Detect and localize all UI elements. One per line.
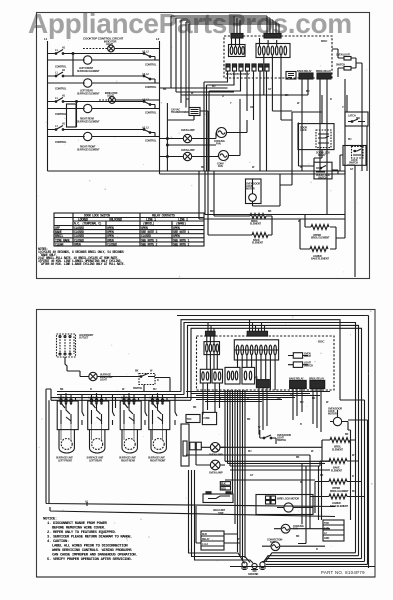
- svg-text:FAN: FAN: [218, 165, 223, 168]
- svg-text:BROIL RELAY: BROIL RELAY: [316, 70, 332, 73]
- node L1 (left bus): [44, 37, 48, 171]
- wire stub U2-U3: [113, 395, 116, 426]
- oven light switch SW-OL: [336, 54, 356, 61]
- wire bus y214: [205, 171, 345, 215]
- svg-text:TCO: TCO: [187, 418, 192, 421]
- control switch S4: [48, 123, 78, 145]
- wire top loop B: [184, 323, 356, 406]
- svg-text:BK: BK: [296, 456, 300, 459]
- door lock motor M3: [246, 174, 281, 206]
- svg-text:LIGHT: LIGHT: [304, 355, 311, 358]
- svg-text:RELAY: RELAY: [202, 538, 210, 541]
- svg-text:CONTROL: CONTROL: [55, 88, 67, 91]
- svg-text:1. DISCONNECT RANGE FROM POWER: 1. DISCONNECT RANGE FROM POWER: [47, 522, 108, 526]
- svg-text:ELEMENT: ELEMENT: [252, 242, 264, 245]
- svg-text:LABEL ALL WIRES PRIOR TO DISCO: LABEL ALL WIRES PRIOR TO DISCONNECTION: [52, 545, 128, 549]
- svg-text:DOOR LOCK SWITCH: DOOR LOCK SWITCH: [84, 214, 110, 218]
- wire bundle bends right: [225, 461, 330, 466]
- thermal fuse F1: [186, 415, 200, 423]
- upper broil element R3: [305, 215, 336, 240]
- wire row3: [48, 101, 160, 127]
- svg-text:LIGHT: LIGHT: [107, 95, 114, 98]
- cooling fan M5: [274, 524, 330, 533]
- wire surface bus y391: [57, 391, 181, 393]
- svg-text:H1 L2: H1 L2: [143, 99, 150, 102]
- wire ground links: [189, 470, 254, 563]
- wire fan y395: [196, 395, 320, 397]
- wire relay outputs down: [302, 79, 345, 219]
- svg-text:CONTROL: CONTROL: [145, 86, 157, 89]
- broil element R1: [214, 171, 272, 228]
- svg-text:OVEN LAMP: OVEN LAMP: [209, 471, 223, 474]
- svg-text:BAKE ELEMENT: BAKE ELEMENT: [330, 505, 349, 508]
- wire tags bottom diagram: [60, 388, 356, 551]
- svg-text:GY: GY: [350, 168, 354, 171]
- DOC dashed box (top): [224, 36, 332, 78]
- wire bundle down left of DOC: [171, 16, 189, 103]
- svg-text:BK: BK: [345, 433, 349, 436]
- svg-text:DLB: DLB: [202, 533, 207, 536]
- svg-text:CONTROL: CONTROL: [55, 66, 67, 69]
- latch switch SW-L: [345, 95, 368, 171]
- svg-text:CONTROL: CONTROL: [55, 141, 67, 144]
- part number strip: [37, 567, 376, 578]
- control switch S4b: [143, 127, 157, 143]
- wire bus y219: [199, 171, 345, 219]
- wire stub right of U4: [175, 395, 177, 426]
- wire oven light feeds: [332, 49, 362, 171]
- svg-text:UNLOCKED: UNLOCKED: [109, 218, 122, 222]
- wire vert x292: [280, 112, 322, 185]
- wire top loop A: [181, 320, 365, 440]
- svg-text:BK: BK: [193, 406, 197, 409]
- svg-text:4. CAUTION:: 4. CAUTION:: [47, 540, 69, 544]
- inner chassis box: [46, 389, 335, 517]
- svg-text:MOTOR: MOTOR: [246, 188, 255, 191]
- svg-text:SWITCH: SWITCH: [133, 387, 142, 390]
- svg-text:BK: BK: [201, 166, 205, 169]
- svg-text:CAN CAUSE IMPROPER AND DANGERO: CAN CAUSE IMPROPER AND DANGEROUS OPERATI…: [52, 554, 137, 558]
- connector row J2: [212, 369, 223, 383]
- svg-text:DOC: DOC: [318, 340, 325, 344]
- svg-text:BROIL RELAY: BROIL RELAY: [309, 377, 325, 380]
- high limit thermostat HL: [203, 492, 233, 515]
- element RF tube: [148, 424, 166, 462]
- connector P5 pins: [234, 340, 278, 390]
- svg-text:CLEAN: CLEAN: [55, 242, 63, 246]
- svg-text:TOD: TOD: [324, 522, 329, 525]
- part number label: [321, 570, 365, 575]
- wire stub U3-U4: [145, 395, 147, 426]
- wire P1 feeds: [234, 16, 240, 34]
- relay K5: [309, 377, 325, 388]
- wire top feeds left: [171, 16, 279, 24]
- door lock motor M7 (right): [328, 408, 351, 521]
- wire P2 feeds: [267, 16, 279, 34]
- svg-text:BROIL ELEMENT: BROIL ELEMENT: [330, 490, 349, 493]
- svg-text:SWITCH: SWITCH: [277, 439, 286, 442]
- infinite switch SW1: [57, 393, 78, 430]
- svg-text:GY: GY: [290, 394, 294, 397]
- svg-text:BEFORE REMOVING WIRE COVER.: BEFORE REMOVING WIRE COVER.: [52, 527, 106, 531]
- svg-text:OUTLET: OUTLET: [79, 337, 89, 340]
- connector row J1: [200, 369, 210, 383]
- terminal block TOD: [323, 520, 344, 541]
- svg-text:SEE NOTE 2: SEE NOTE 2: [141, 242, 158, 246]
- lock switch SW-LK: [340, 146, 366, 172]
- wire top loop D: [191, 328, 362, 410]
- oven light switch SW-OL2: [336, 64, 356, 71]
- svg-text:L1 L2: L1 L2: [202, 543, 209, 546]
- svg-text:SWITCH: SWITCH: [318, 177, 327, 180]
- wire surface bus y397: [51, 397, 188, 399]
- connector P2 pins: [256, 38, 292, 120]
- svg-text:SURFACE ELEMENT: SURFACE ELEMENT: [77, 70, 100, 73]
- connector P1 plug cap: [231, 34, 243, 39]
- svg-text:LIGHT: LIGHT: [106, 43, 113, 46]
- svg-text:TRANSFORMER: TRANSFORMER: [171, 111, 189, 114]
- wire surface bus y394: [57, 394, 184, 396]
- terminal block TB2: [255, 377, 269, 388]
- svg-text:BK: BK: [163, 88, 167, 91]
- svg-text:FAN: FAN: [216, 143, 221, 146]
- svg-text:LIGHT: LIGHT: [100, 379, 107, 382]
- svg-text:LOCK: LOCK: [300, 129, 307, 132]
- svg-text:SURFACE ELEMENT: SURFACE ELEMENT: [77, 92, 100, 95]
- connector P2 plug cap: [264, 34, 281, 39]
- svg-text:SWITCH: SWITCH: [304, 364, 313, 367]
- svg-text:CONTROL: CONTROL: [145, 112, 157, 115]
- cooling fan M1: [214, 120, 247, 146]
- svg-text:BU: BU: [153, 388, 157, 391]
- svg-text:BU: BU: [352, 490, 356, 493]
- svg-text:BK: BK: [135, 370, 139, 373]
- connector P5 plug cap: [247, 331, 267, 336]
- wire bundle DOC outputs down: [204, 71, 267, 171]
- wire fan y401: [205, 401, 262, 403]
- svg-text:RIGHT REAR: RIGHT REAR: [121, 459, 135, 462]
- door lock relay K3: [298, 95, 334, 158]
- wire stub U1-U2: [82, 395, 84, 426]
- svg-text:H1 L2: H1 L2: [143, 51, 150, 54]
- wire main bundle: [225, 390, 245, 564]
- svg-text:L1: L1: [44, 37, 48, 41]
- svg-text:BU: BU: [248, 450, 252, 453]
- wire right column joins: [336, 165, 355, 277]
- control switch S1: [48, 47, 78, 69]
- svg-text:OVEN LAMP: OVEN LAMP: [181, 149, 195, 152]
- svg-text:BK: BK: [268, 210, 272, 213]
- control switch S1b: [143, 51, 157, 67]
- wire fan y391: [186, 391, 330, 393]
- upper broil element R7: [315, 479, 362, 513]
- wire P4 feeds: [208, 323, 214, 332]
- wire right bends to ground: [262, 553, 368, 565]
- element E2 left rear: [77, 79, 100, 96]
- wire transformer leads: [167, 99, 208, 171]
- svg-text:LATCH: LATCH: [348, 115, 356, 118]
- element LF tube: [56, 424, 74, 462]
- relay K4: [289, 377, 306, 388]
- svg-text:FAN: FAN: [270, 541, 275, 544]
- bottom diagram frame: [37, 310, 376, 578]
- svg-text:BU: BU: [306, 90, 310, 93]
- bake element R6: [320, 459, 359, 473]
- lamp holder LH: [190, 442, 202, 450]
- svg-text:SURFACE ELEMENT: SURFACE ELEMENT: [77, 120, 100, 123]
- svg-text:(BROIL): (BROIL): [143, 222, 155, 226]
- table door-lock/relay: [54, 213, 204, 246]
- svg-text:STAT: STAT: [218, 512, 224, 515]
- oven lamp LA3: [201, 443, 225, 457]
- DOC dashed box (bottom): [197, 336, 335, 390]
- control switch S3: [48, 95, 78, 117]
- wire top loop C: [188, 325, 359, 405]
- door light switch SW8: [260, 430, 291, 444]
- svg-text:2. REFER ONLY TO FEATURES EQUI: 2. REFER ONLY TO FEATURES EQUIPPED.: [47, 531, 116, 535]
- svg-text:RED: RED: [221, 487, 226, 490]
- wire DOC drops: [203, 383, 321, 435]
- svg-text:BK: BK: [247, 418, 251, 421]
- svg-text:ELEMENT: ELEMENT: [331, 469, 343, 472]
- control module MDL: [286, 72, 296, 80]
- connector row J4: [242, 367, 255, 384]
- svg-text:GY: GY: [268, 88, 272, 91]
- svg-text:LEFT REAR: LEFT REAR: [89, 459, 102, 462]
- element E3 right rear: [77, 104, 100, 123]
- scan speckle (decorative): [38, 28, 373, 575]
- svg-text:OVEN LAMP: OVEN LAMP: [209, 454, 223, 457]
- svg-text:BK: BK: [312, 397, 316, 400]
- svg-text:NOTICE:: NOTICE:: [43, 518, 57, 522]
- svg-text:DOC: DOC: [321, 39, 328, 43]
- lower bake element R4: [300, 219, 336, 261]
- svg-text:BAKE RELAY: BAKE RELAY: [289, 377, 304, 380]
- svg-text:WHEN SERVICING CONTROLS. WIRIN: WHEN SERVICING CONTROLS. WIRING PROBLEMS: [52, 549, 132, 553]
- watermark: [28, 8, 352, 39]
- wire main bus y171: [48, 170, 346, 172]
- wire horiz y92: [176, 91, 234, 93]
- title COOKTOP CONTROL CIRCUIT: [83, 37, 124, 41]
- ground G1: [241, 562, 248, 570]
- svg-text:BK: BK: [296, 535, 300, 538]
- svg-text:BLK: BLK: [221, 483, 226, 486]
- svg-text:H1 L2: H1 L2: [143, 73, 150, 76]
- svg-text:RIGHT FRONT: RIGHT FRONT: [150, 459, 166, 462]
- svg-text:H1 L2: H1 L2: [143, 127, 150, 130]
- wire surface bus y400: [51, 399, 191, 401]
- indicator light I2: [99, 92, 160, 103]
- lower bake element R8: [310, 494, 365, 518]
- control switch S2: [48, 69, 78, 91]
- svg-text:SWITCH: SWITCH: [349, 162, 358, 165]
- wire relay risers to TOD: [298, 461, 322, 543]
- svg-text:SEE NOTE 2: SEE NOTE 2: [173, 242, 190, 246]
- wire fan y393: [191, 393, 310, 395]
- svg-text:CONTROL: CONTROL: [145, 64, 157, 67]
- svg-text:CLOSED: CLOSED: [107, 242, 117, 246]
- transformer T1: [171, 108, 208, 116]
- svg-text:BK: BK: [285, 94, 289, 97]
- element LR tube: [87, 424, 105, 462]
- wire tags top diagram: [163, 85, 354, 223]
- wire P5 feeds: [250, 320, 265, 332]
- svg-text:CONTROL: CONTROL: [55, 113, 67, 116]
- wire cross links mid: [186, 440, 330, 480]
- svg-text:BU: BU: [212, 85, 216, 88]
- connector strip P7: [181, 424, 189, 466]
- wire bus y174: [160, 171, 346, 174]
- convection fan M2: [217, 99, 240, 168]
- svg-text:OPEN: OPEN: [74, 242, 81, 246]
- terminal block row TB1: [226, 64, 269, 76]
- oven light switch SW6: [288, 353, 311, 359]
- ground G3: [259, 562, 266, 570]
- connector P3 (aux, dashed): [57, 334, 76, 357]
- node L2 (mid bus): [156, 37, 160, 171]
- wire row2: [48, 76, 160, 83]
- connector tags P6: [220, 482, 230, 491]
- control switch S2b: [143, 73, 157, 89]
- door lock motor assembly M4: [256, 495, 313, 515]
- notice text: [43, 518, 137, 563]
- infinite switch SW4: [149, 393, 170, 430]
- wire horiz y88: [160, 87, 228, 89]
- element E4 right front: [77, 132, 100, 151]
- wire row4: [48, 130, 160, 137]
- ground G2: [248, 563, 259, 576]
- svg-text:BAKE RELAY: BAKE RELAY: [297, 70, 312, 73]
- svg-text:OR: OR: [277, 397, 281, 400]
- table notes text: [38, 247, 125, 266]
- svg-text:SURFACE ELEMENT: SURFACE ELEMENT: [77, 148, 100, 151]
- oven lamp LA4: [196, 450, 225, 474]
- svg-text:BR: BR: [210, 210, 214, 213]
- bake element R2: [208, 171, 272, 245]
- svg-text:BU: BU: [348, 138, 352, 141]
- svg-text:PART NO. 8104P79: PART NO. 8104P79: [321, 570, 365, 575]
- relay K1: [297, 70, 313, 79]
- svg-text:MOTOR: MOTOR: [328, 413, 337, 416]
- svg-text:5. VERIFY PROPER OPERATION AFT: 5. VERIFY PROPER OPERATION AFTER SERVICI…: [47, 558, 132, 562]
- indicator light I1: [83, 41, 160, 52]
- thermal fuse F2: [202, 412, 216, 424]
- oven lamp LA2: [160, 145, 219, 161]
- DLB relay block K6: [196, 506, 240, 550]
- oven light switch SW7: [288, 362, 313, 368]
- wire fan y399: [196, 399, 282, 401]
- surface indicator light I3: [67, 371, 130, 382]
- svg-text:L1 N: L1 N: [324, 527, 329, 530]
- svg-text:OR: OR: [250, 106, 254, 109]
- svg-text:SWITCH: SWITCH: [336, 64, 345, 67]
- svg-text:N.C. (TERMINAL C): N.C. (TERMINAL C): [74, 222, 102, 226]
- svg-text:L1 H1 L2: L1 H1 L2: [58, 397, 68, 400]
- svg-text:BAKE ELEMENT: BAKE ELEMENT: [311, 258, 330, 261]
- svg-text:GRD: GRD: [324, 537, 329, 540]
- svg-text:CONTROL: CONTROL: [145, 140, 157, 143]
- connector row J3: [225, 367, 240, 384]
- svg-text:(BAKE): (BAKE): [176, 222, 186, 226]
- rotary switch S5: [130, 370, 170, 392]
- door lock switch SW-DL: [314, 158, 338, 180]
- wire row1: [48, 53, 160, 76]
- infinite switch SW2: [88, 393, 109, 430]
- connector P4 plug cap: [206, 331, 216, 336]
- wire right risers: [348, 405, 368, 564]
- oven lamp LA1: [160, 103, 217, 171]
- svg-text:L1 H1 L2: L1 H1 L2: [150, 397, 160, 400]
- svg-text:ELEMENT: ELEMENT: [250, 223, 262, 226]
- element E1 left front: [77, 56, 100, 73]
- svg-text:BU: BU: [300, 401, 304, 404]
- connector P1 pins: [229, 38, 246, 57]
- svg-text:GROUND: GROUND: [248, 573, 259, 576]
- convection fan M6: [262, 539, 325, 551]
- svg-text:BK: BK: [60, 388, 64, 391]
- svg-text:LEFT FRONT: LEFT FRONT: [58, 459, 73, 462]
- svg-text:OVEN LAMP: OVEN LAMP: [181, 129, 195, 132]
- broil element R5: [322, 438, 356, 462]
- svg-text:L2: L2: [156, 37, 160, 41]
- infinite switch SW3: [120, 393, 141, 430]
- svg-text:BROIL ELEMENT: BROIL ELEMENT: [311, 237, 330, 240]
- control switch S3b: [143, 99, 157, 115]
- wire fan y397: [186, 397, 295, 399]
- svg-text:L1 H1 L2: L1 H1 L2: [121, 397, 131, 400]
- svg-text:WIRE LOCK MOTOR: WIRE LOCK MOTOR: [277, 498, 299, 501]
- element RR tube: [119, 424, 137, 462]
- top diagram frame: [37, 13, 370, 279]
- svg-text:GY: GY: [250, 474, 254, 477]
- connector P4 pins: [204, 336, 220, 369]
- svg-text:AFTER 40 MIN. LINE 1-BAKE CYCL: AFTER 40 MIN. LINE 1-BAKE CYCLING ONLY A…: [41, 262, 125, 266]
- svg-text:ELEMENT: ELEMENT: [332, 448, 344, 451]
- svg-text:BK: BK: [320, 474, 324, 477]
- svg-text:FUSE: FUSE: [204, 417, 211, 420]
- svg-text:L1 H1 L2: L1 H1 L2: [89, 397, 99, 400]
- wire horiz y95: [181, 95, 308, 103]
- relay K2: [316, 70, 332, 79]
